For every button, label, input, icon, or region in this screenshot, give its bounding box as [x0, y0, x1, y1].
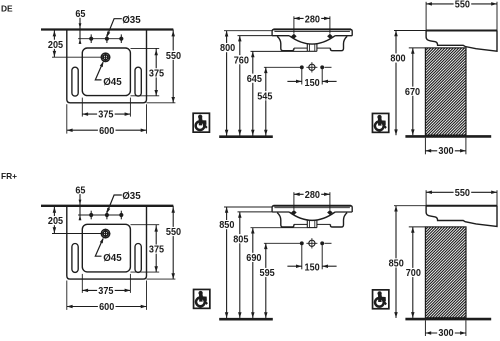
dimension 850 (height)	[226, 207, 228, 318]
dimension 550 (depth)	[426, 191, 497, 193]
rim right end cap	[348, 206, 352, 212]
svg-text:Ø35: Ø35	[122, 191, 141, 202]
svg-text:205: 205	[48, 40, 63, 51]
shelf line right of boss	[317, 47, 330, 49]
basin side profile	[426, 205, 497, 207]
floor line (side view)	[405, 318, 491, 321]
rim underside extension line	[238, 211, 273, 213]
rim bottom edge left	[272, 35, 289, 37]
shelf line right of boss	[317, 223, 330, 225]
witness lines 600	[66, 281, 68, 310]
left grip slot	[72, 244, 78, 273]
dimension 690 (height)	[252, 228, 254, 318]
floor line (front view)	[219, 135, 273, 138]
dimension 150	[287, 80, 301, 82]
rim right end cap	[348, 29, 352, 35]
extension line basin top edge	[131, 47, 160, 49]
witness lines 375 horizontal	[81, 274, 83, 293]
svg-text:280: 280	[305, 190, 320, 201]
tap hole right	[119, 34, 123, 43]
drain axis line with connection dots	[264, 66, 302, 68]
witness line wall edge (550)	[496, 2, 498, 36]
dimension 800 (height, side)	[395, 31, 397, 136]
arrow diamond right (280 reference)	[327, 34, 333, 39]
dimension 645 (height)	[252, 51, 254, 135]
dimension 300 (clearance width)	[425, 150, 466, 152]
extension line hatch top	[409, 47, 426, 49]
dimension 205	[53, 30, 55, 58]
svg-text:805: 805	[233, 234, 248, 245]
tap hole right	[119, 211, 123, 220]
svg-text:375: 375	[98, 286, 113, 297]
wheelchair accessibility icon (bottom row, side)	[373, 290, 389, 309]
washbasin outer outline 600x550 (plan)	[67, 206, 147, 279]
svg-text:Ø35: Ø35	[122, 15, 141, 26]
svg-text:150: 150	[305, 78, 320, 89]
svg-text:645: 645	[247, 74, 262, 85]
dimension 550 (depth)	[426, 3, 497, 5]
rim bottom edge left	[272, 211, 289, 213]
extension line basin top edge	[131, 224, 160, 226]
extension line drain axis	[52, 56, 101, 58]
dimension 595 (height)	[265, 243, 267, 318]
svg-text:300: 300	[438, 328, 453, 336]
witness line front edge (550)	[425, 190, 427, 206]
bowl underside arc	[289, 212, 335, 220]
basin front profile: rim top	[273, 28, 351, 30]
left leg and foot	[277, 36, 294, 50]
witness lines 375 horizontal	[81, 98, 83, 117]
svg-text:300: 300	[438, 146, 453, 157]
witness lines 280	[293, 192, 295, 210]
drain hole Ø45 symbol	[101, 52, 111, 62]
svg-text:550: 550	[166, 51, 181, 62]
extension line outer bottom edge	[147, 278, 176, 280]
tap hole axis line	[78, 214, 122, 216]
wall line (plan)	[41, 205, 173, 207]
dimension 760 (height)	[239, 36, 241, 136]
right leg and foot	[330, 36, 347, 50]
extension line bowl bottom	[251, 227, 308, 229]
svg-text:700: 700	[406, 268, 421, 279]
extension line hatch top	[409, 226, 426, 228]
svg-text:DE: DE	[1, 3, 13, 13]
dimension 375 horizontal (bowl width)	[82, 113, 130, 115]
extension line outer bottom edge	[147, 102, 176, 104]
dimension 280 (tap ledge)	[294, 193, 330, 195]
svg-text:375: 375	[98, 110, 113, 121]
dimension 65 (wall to tap axis)	[79, 194, 81, 220]
dimension 800 (height)	[226, 31, 228, 136]
bowl underside arc	[289, 36, 335, 44]
wheelchair accessibility icon (top row, side)	[372, 113, 388, 132]
right grip slot	[135, 67, 141, 96]
dimension 300 (clearance width)	[425, 332, 466, 334]
dimension 375 horizontal (bowl width)	[82, 289, 130, 291]
svg-text:375: 375	[149, 68, 164, 79]
svg-text:FR+: FR+	[1, 171, 17, 181]
inner basin bowl rounded rectangle	[82, 48, 130, 96]
shelf line left of boss	[294, 47, 307, 49]
basin front profile: rim top	[273, 205, 351, 207]
witness lines 280	[293, 16, 295, 33]
extension line rim level (side)	[394, 205, 426, 207]
svg-text:600: 600	[99, 302, 114, 313]
svg-text:850: 850	[219, 220, 234, 231]
rim inner deck line	[274, 207, 350, 209]
wall extension line (800-level)	[224, 206, 272, 208]
dimension 150	[287, 265, 301, 267]
drain outlet symbol	[306, 238, 317, 248]
svg-text:Ø45: Ø45	[103, 77, 122, 88]
tap hole axis line	[78, 38, 122, 40]
wheelchair accessibility icon (top row, plan)	[193, 113, 209, 132]
inner basin bowl rounded rectangle	[82, 224, 130, 272]
svg-text:Ø45: Ø45	[103, 253, 122, 264]
witness line wall edge (550)	[496, 190, 498, 211]
tap hole middle Ø35	[105, 34, 109, 43]
rim bottom edge right	[335, 35, 352, 37]
wheelchair accessibility icon (bottom row, plan)	[194, 289, 210, 308]
svg-text:600: 600	[99, 126, 114, 137]
left leg and foot	[277, 213, 294, 227]
dimension 600 (overall width)	[67, 129, 147, 131]
drain hole Ø45 symbol	[101, 229, 111, 239]
dimension 280 (tap ledge)	[294, 17, 330, 19]
witness lines 150	[301, 243, 303, 269]
witness lines 150	[301, 67, 303, 84]
svg-text:280: 280	[305, 14, 320, 25]
tap hole left	[89, 34, 93, 43]
svg-text:550: 550	[455, 0, 470, 10]
shelf line left of boss	[294, 223, 307, 225]
extension line basin bottom edge	[131, 95, 160, 97]
witness lines 300	[424, 320, 426, 336]
svg-text:800: 800	[390, 54, 405, 65]
washbasin outer outline 600x550 (plan)	[67, 30, 147, 103]
tap hole middle Ø35	[105, 211, 109, 220]
extension line drain axis	[52, 233, 101, 235]
dimension 65 (wall to tap axis)	[79, 18, 81, 44]
dimension 670 (clearance height)	[412, 48, 414, 135]
central drain boss	[306, 43, 308, 51]
dimension 550 vertical (plan)	[172, 30, 174, 103]
svg-text:550: 550	[455, 188, 470, 199]
drain outlet symbol	[306, 62, 317, 72]
svg-text:375: 375	[149, 245, 164, 256]
svg-text:595: 595	[260, 268, 275, 279]
dimension 205	[53, 206, 55, 234]
svg-text:800: 800	[220, 43, 235, 54]
svg-text:150: 150	[305, 263, 320, 274]
dimension 600 (overall width)	[67, 306, 147, 308]
basin side profile	[426, 30, 497, 32]
rim bottom edge right	[335, 211, 352, 213]
witness lines 600	[66, 104, 68, 133]
dimension 375 vertical (basin depth)	[155, 225, 157, 272]
right grip slot	[135, 244, 141, 273]
left grip slot	[72, 67, 78, 96]
floor line (front view)	[219, 318, 273, 321]
rim left end cap	[272, 206, 276, 212]
svg-text:65: 65	[75, 9, 85, 20]
tap hole left	[89, 211, 93, 220]
arrow diamond left (280 reference)	[291, 210, 297, 215]
drain axis stub right	[325, 242, 332, 244]
rim left end cap	[272, 29, 276, 35]
dimension 550 vertical (plan)	[172, 206, 174, 279]
dimension 375 vertical (basin depth)	[155, 48, 157, 95]
svg-text:670: 670	[405, 87, 420, 98]
svg-text:545: 545	[257, 91, 272, 102]
right leg and foot	[330, 213, 347, 227]
dimension 850 (height, side)	[395, 206, 397, 318]
extension line bowl bottom	[251, 50, 308, 52]
arrow diamond left (280 reference)	[291, 34, 297, 39]
rim underside extension line	[238, 35, 273, 37]
floor line (side view)	[405, 135, 491, 138]
svg-text:550: 550	[166, 227, 181, 238]
drain axis stub right	[325, 66, 332, 68]
wall line (plan)	[41, 28, 173, 30]
rim inner deck line	[274, 30, 350, 32]
svg-text:65: 65	[75, 185, 85, 196]
arrow diamond right (280 reference)	[327, 210, 333, 215]
svg-text:205: 205	[48, 216, 63, 227]
svg-text:760: 760	[234, 55, 249, 66]
svg-text:850: 850	[389, 258, 404, 269]
svg-text:690: 690	[246, 253, 261, 264]
extension line basin bottom edge	[131, 271, 160, 273]
dimension 805 (height)	[239, 212, 241, 318]
witness lines 300	[424, 138, 426, 155]
witness line front edge (550)	[425, 2, 427, 31]
wall extension line (800-level)	[224, 30, 272, 32]
extension line rim level (side)	[394, 30, 426, 32]
drain axis line with connection dots	[264, 242, 302, 244]
central drain boss	[306, 220, 308, 228]
dimension 545 (height)	[265, 67, 267, 135]
dimension 700 (clearance height)	[412, 227, 414, 318]
